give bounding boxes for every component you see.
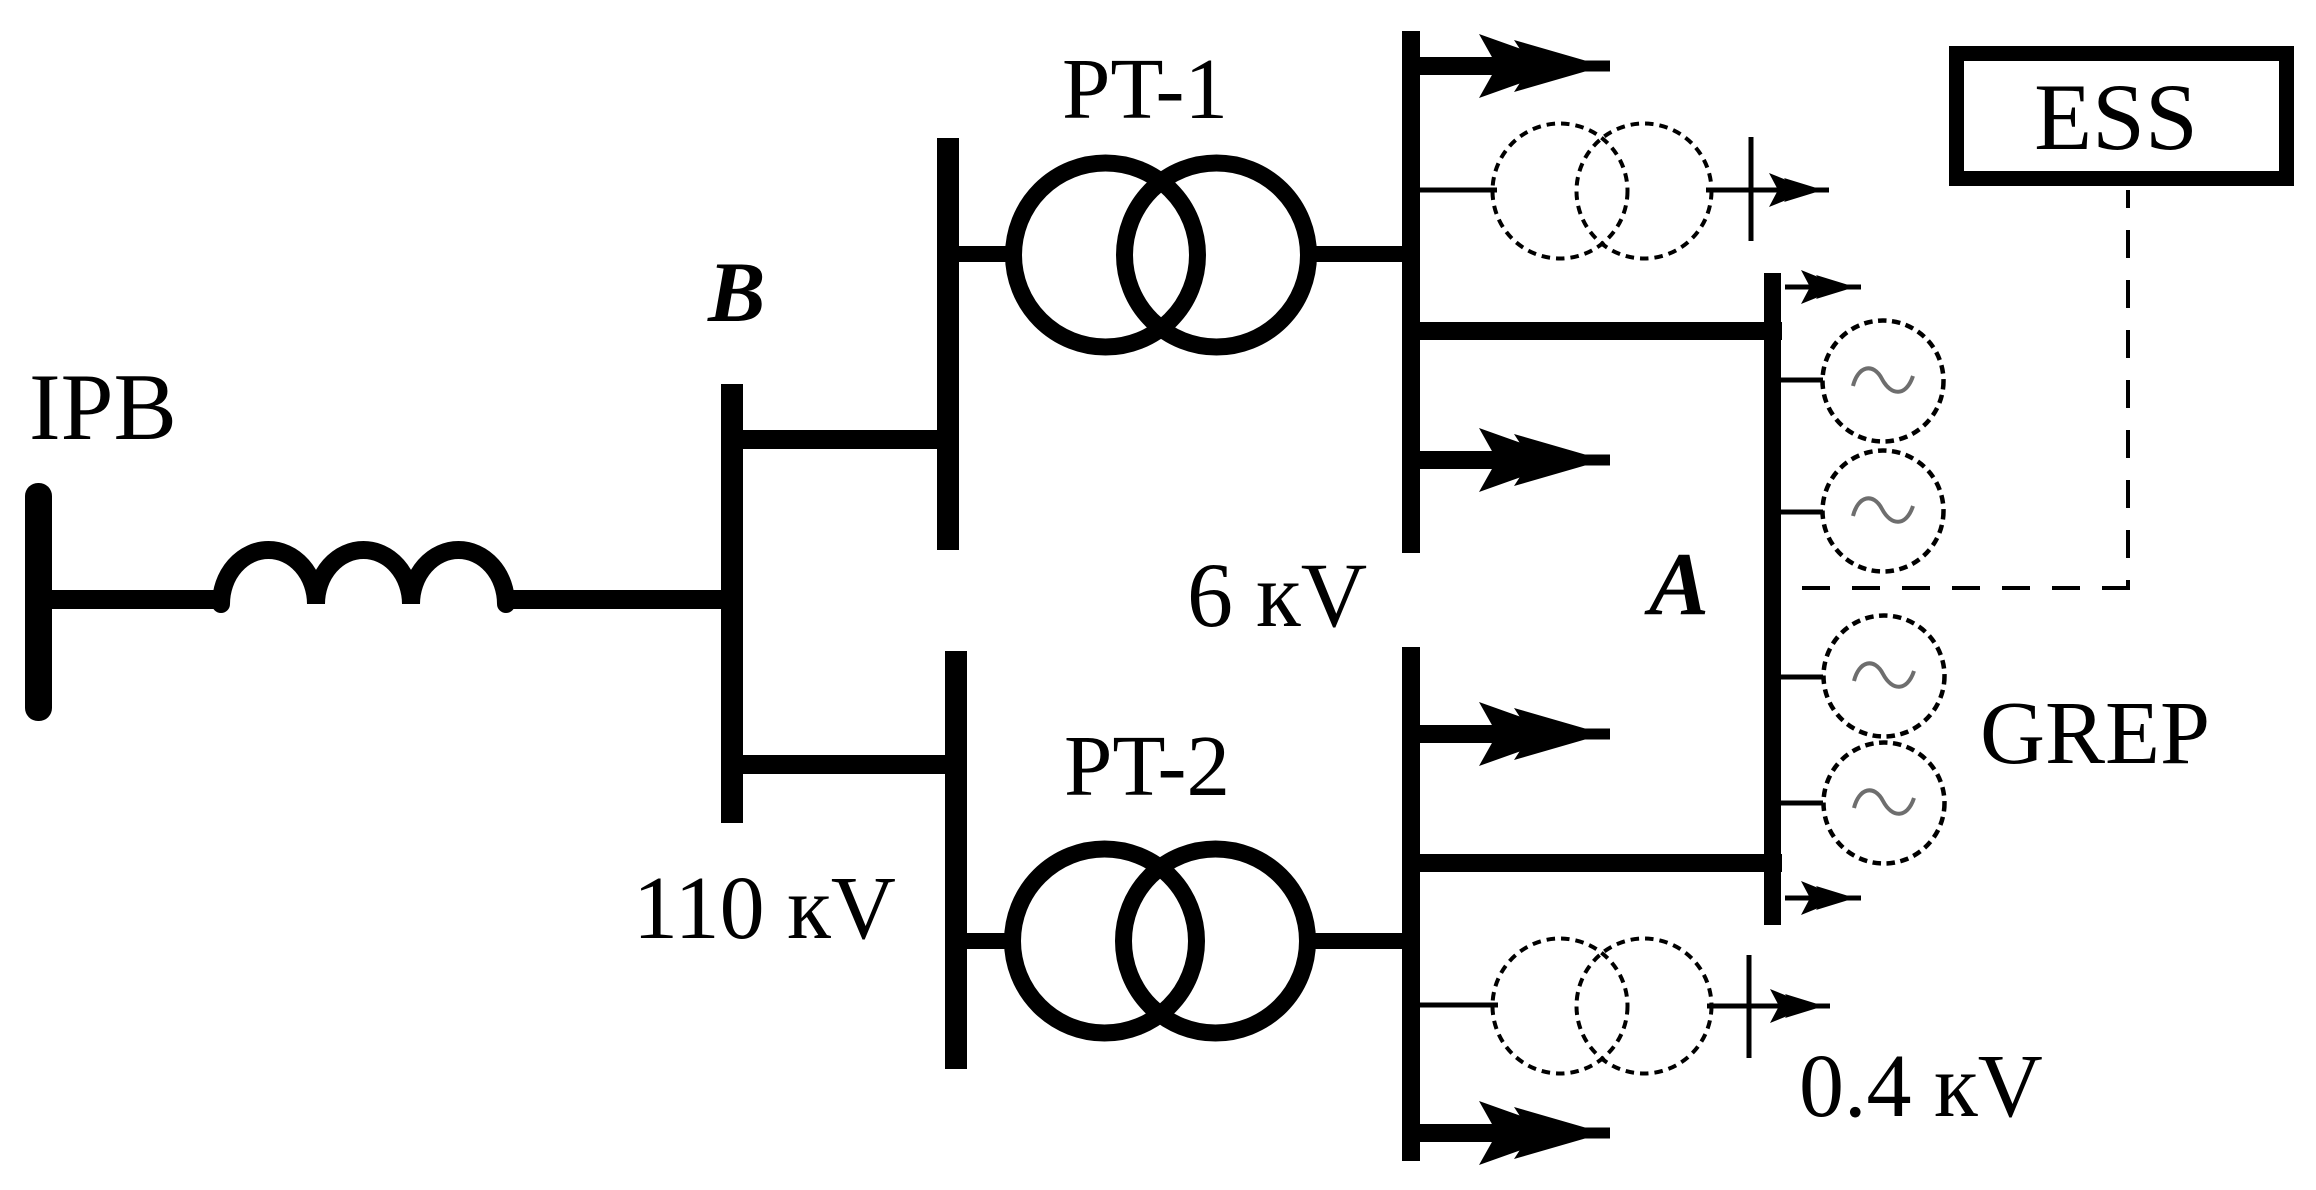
svg-text:110 кV: 110 кV	[633, 859, 896, 958]
svg-text:PT-2: PT-2	[1064, 717, 1230, 814]
svg-text:A: A	[1644, 535, 1709, 634]
svg-text:B: B	[707, 244, 765, 340]
svg-text:ESS: ESS	[2034, 64, 2198, 170]
svg-text:6 кV: 6 кV	[1187, 544, 1367, 646]
svg-text:0.4 кV: 0.4 кV	[1799, 1037, 2043, 1136]
svg-text:PT-1: PT-1	[1062, 40, 1228, 137]
svg-text:GREP: GREP	[1980, 684, 2210, 783]
svg-text:IPB: IPB	[29, 354, 177, 460]
